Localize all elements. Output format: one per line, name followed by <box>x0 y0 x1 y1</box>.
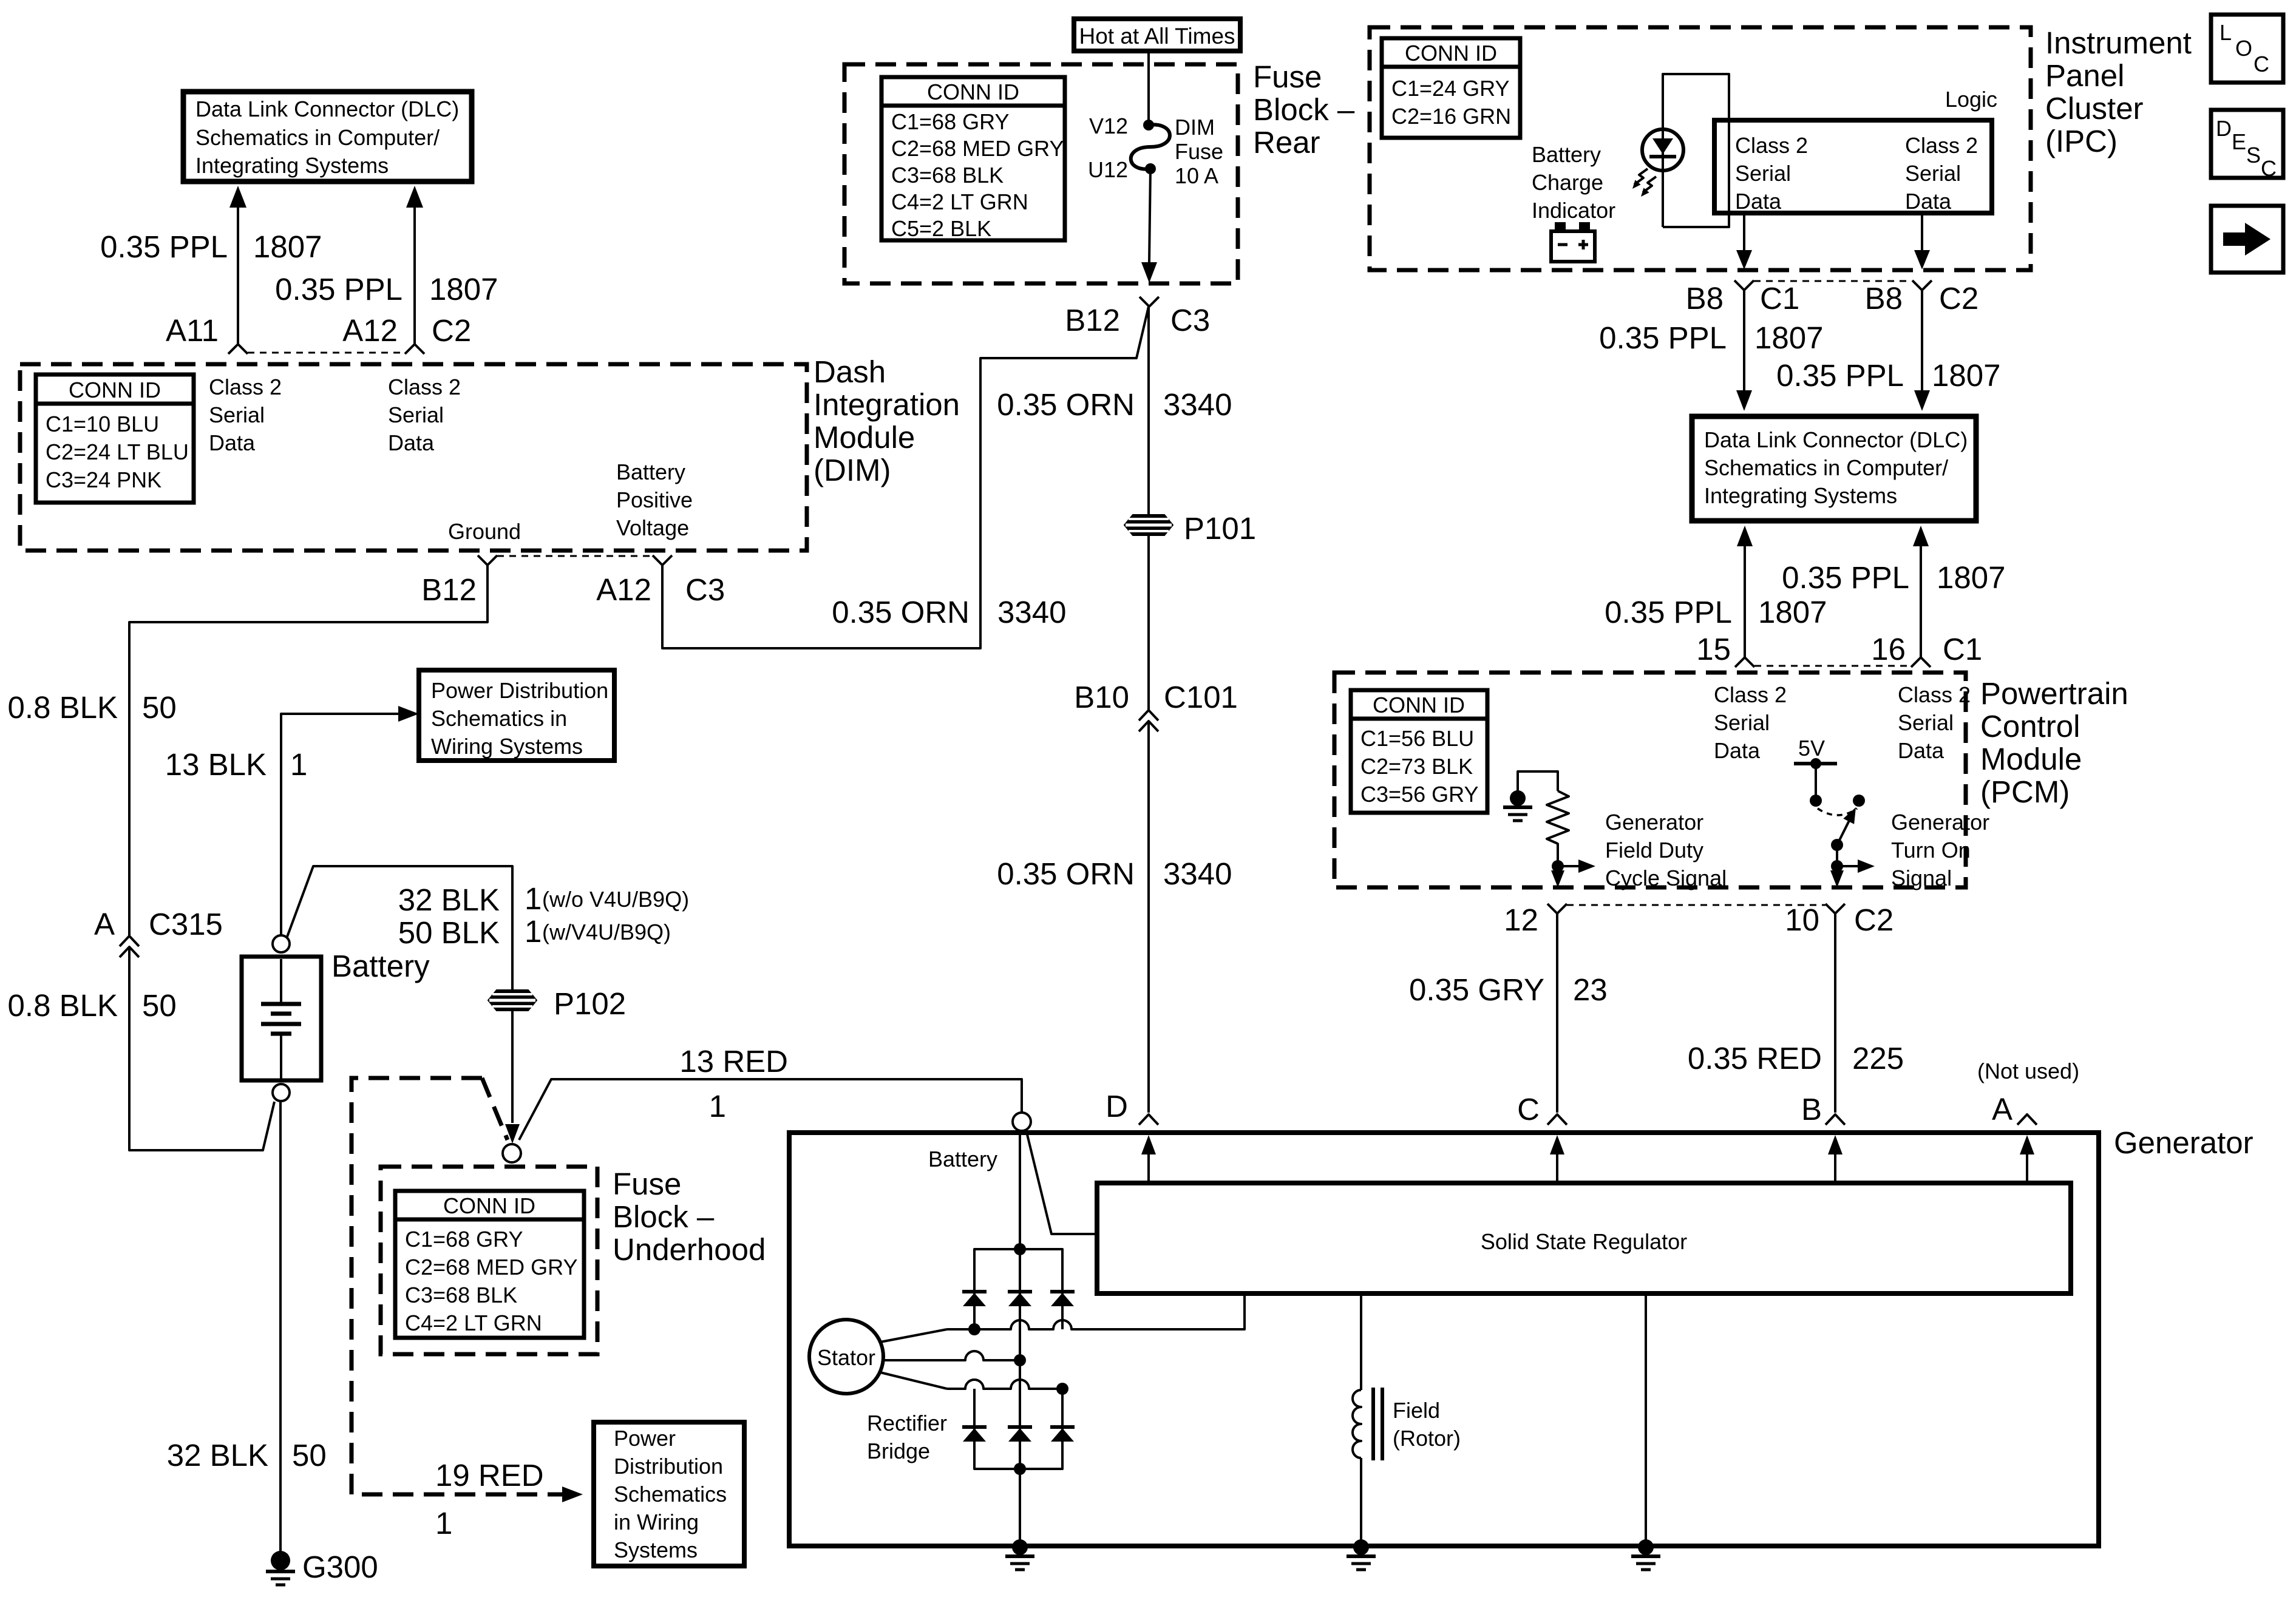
Fuse Block - Underhood dashed diagonal to terminal <box>482 1078 508 1140</box>
terminal B arrow <box>1834 1153 1836 1183</box>
DIM fuse 10A <box>1131 120 1170 174</box>
svg-text:B12: B12 <box>421 572 477 607</box>
svg-text:Integration: Integration <box>813 387 960 422</box>
connector 15 at PCM <box>1735 657 1754 667</box>
svg-text:(Not used): (Not used) <box>1977 1059 2079 1083</box>
svg-text:Serial: Serial <box>1714 710 1770 735</box>
svg-text:C2: C2 <box>432 313 471 348</box>
connector A / C315 inline <box>120 936 139 946</box>
DIM CONN ID table <box>36 375 194 503</box>
svg-text:D: D <box>1106 1089 1128 1124</box>
svg-text:225: 225 <box>1852 1041 1904 1076</box>
svg-text:0.35 GRY: 0.35 GRY <box>1409 972 1544 1007</box>
wire branch to DIM battery positive <box>662 307 1149 648</box>
svg-text:32 BLK: 32 BLK <box>398 883 500 917</box>
svg-text:Cycle Signal: Cycle Signal <box>1605 866 1727 890</box>
svg-text:E: E <box>2232 129 2246 154</box>
svg-text:50 BLK: 50 BLK <box>398 915 500 950</box>
connector link dashed line <box>497 555 652 557</box>
svg-text:C2=68 MED GRY: C2=68 MED GRY <box>891 136 1064 161</box>
wire arm to junction <box>1836 845 1838 880</box>
Underhood CONN ID table <box>395 1191 584 1338</box>
wire fuse output down <box>1149 169 1150 262</box>
svg-text:C2=73 BLK: C2=73 BLK <box>1360 754 1473 779</box>
svg-text:Integrating Systems: Integrating Systems <box>1704 483 1897 508</box>
Fuse Block - Underhood dashed boundary line <box>352 1078 562 1494</box>
phase A line with hops <box>947 1296 1245 1329</box>
connector A11 at DIM <box>228 344 248 354</box>
terminal C arrow <box>1556 1153 1558 1183</box>
connector link dashed line <box>248 352 405 354</box>
diode D2 (top middle) <box>1008 1292 1032 1306</box>
svg-text:Generator: Generator <box>2114 1125 2254 1160</box>
terminal A arrow <box>2026 1153 2028 1183</box>
svg-text:Rectifier: Rectifier <box>867 1411 947 1436</box>
wire battery positive to P102 <box>287 866 512 990</box>
wire hot feed to fuse <box>1147 51 1150 125</box>
regulator ground leg <box>1645 1296 1647 1547</box>
Fuse Block - Underhood dashed box <box>381 1167 597 1354</box>
wire IPC C2 to DLC <box>1921 290 1923 392</box>
svg-text:1: 1 <box>290 747 307 782</box>
svg-text:C2=68 MED GRY: C2=68 MED GRY <box>405 1255 577 1280</box>
svg-text:C2: C2 <box>1939 281 1978 316</box>
svg-text:Indicator: Indicator <box>1532 198 1615 223</box>
battery box <box>242 957 321 1080</box>
svg-text:0.8 BLK: 0.8 BLK <box>8 988 118 1023</box>
svg-text:Voltage: Voltage <box>616 515 689 540</box>
wire PCM 16 to DLC <box>1920 545 1922 657</box>
svg-text:DIM: DIM <box>1175 115 1215 140</box>
wire logic to IPC edge (C2) <box>1921 215 1923 250</box>
svg-text:S: S <box>2246 143 2261 168</box>
terminal C chevron <box>1547 1114 1567 1125</box>
switch contact dots <box>1810 795 1822 807</box>
wire resistor to junction <box>1557 843 1559 880</box>
svg-text:Turn On: Turn On <box>1891 838 1971 863</box>
svg-text:12: 12 <box>1504 903 1538 937</box>
svg-text:C2=16 GRN: C2=16 GRN <box>1391 104 1511 129</box>
svg-text:Data: Data <box>388 430 435 455</box>
svg-text:1: 1 <box>709 1089 726 1124</box>
svg-text:Schematics in Computer/: Schematics in Computer/ <box>195 125 440 150</box>
connector B12 at DIM bottom <box>478 555 497 565</box>
svg-text:Wiring Systems: Wiring Systems <box>431 734 583 759</box>
svg-text:B10: B10 <box>1074 680 1129 714</box>
svg-text:3340: 3340 <box>1163 387 1232 422</box>
PCM internal ground <box>1503 790 1532 821</box>
svg-text:Systems: Systems <box>614 1537 698 1562</box>
wire P101 down <box>1147 535 1150 710</box>
svg-text:Schematics: Schematics <box>614 1482 727 1507</box>
svg-text:Serial: Serial <box>1735 161 1791 186</box>
junction dot <box>1552 860 1564 872</box>
svg-text:Ground: Ground <box>448 519 521 544</box>
Powertrain Control Module (PCM) dashed box <box>1334 673 1966 887</box>
svg-text:C4=2 LT GRN: C4=2 LT GRN <box>891 189 1028 214</box>
svg-text:C1=56 BLU: C1=56 BLU <box>1360 726 1474 751</box>
svg-text:CONN ID: CONN ID <box>1405 41 1497 66</box>
svg-text:B8: B8 <box>1865 281 1903 316</box>
wire PCM 15 to DLC <box>1744 545 1746 657</box>
svg-text:1807: 1807 <box>429 272 498 307</box>
svg-text:13 RED: 13 RED <box>679 1044 788 1079</box>
svg-text:C: C <box>2261 156 2277 181</box>
Data Link Connector (DLC) reference box (right) <box>1692 416 1976 521</box>
svg-text:CONN ID: CONN ID <box>443 1193 535 1218</box>
svg-text:L: L <box>2220 20 2232 45</box>
svg-text:Solid State Regulator: Solid State Regulator <box>1481 1229 1687 1254</box>
wire C101 to generator D terminal <box>1147 721 1150 1113</box>
svg-text:P102: P102 <box>554 986 626 1021</box>
bridge output ground <box>1005 1539 1034 1570</box>
svg-text:0.35 PPL: 0.35 PPL <box>1776 358 1904 393</box>
svg-text:0.35 RED: 0.35 RED <box>1688 1041 1822 1076</box>
svg-text:Class 2: Class 2 <box>388 375 461 399</box>
svg-text:Battery: Battery <box>616 459 685 484</box>
svg-text:Block –: Block – <box>613 1199 715 1234</box>
svg-text:in Wiring: in Wiring <box>614 1510 699 1534</box>
svg-text:13 BLK: 13 BLK <box>165 747 267 782</box>
svg-text:Hot at All Times: Hot at All Times <box>1079 24 1235 49</box>
svg-text:Data: Data <box>1714 738 1761 763</box>
switch arm (generator turn on) <box>1837 815 1852 845</box>
svg-text:C2: C2 <box>1854 903 1894 937</box>
svg-text:A: A <box>94 907 115 941</box>
wire battery terminal into generator <box>1026 1130 1095 1234</box>
svg-text:Field: Field <box>1393 1398 1440 1423</box>
wire B12 ground run <box>129 565 487 936</box>
svg-text:50: 50 <box>142 690 177 725</box>
wire 0.35 RED to generator B <box>1834 914 1836 1113</box>
5V supply <box>1794 758 1837 795</box>
svg-text:Serial: Serial <box>209 402 265 427</box>
connector P102 inline <box>488 990 537 1011</box>
signal arrow right <box>1558 865 1578 867</box>
connector 12 at PCM bottom <box>1547 904 1567 914</box>
svg-text:Fuse: Fuse <box>613 1167 681 1201</box>
svg-text:Class 2: Class 2 <box>1905 133 1978 158</box>
svg-text:0.35 ORN: 0.35 ORN <box>832 595 970 629</box>
svg-text:Integrating Systems: Integrating Systems <box>195 153 389 178</box>
svg-text:(Rotor): (Rotor) <box>1393 1426 1461 1451</box>
battery charge indicator LED <box>1642 129 1683 171</box>
switch dashed travel arc <box>1818 808 1857 815</box>
rotor core bars <box>1371 1388 1375 1460</box>
svg-text:C3=24 PNK: C3=24 PNK <box>46 467 161 492</box>
svg-text:Battery: Battery <box>1532 142 1601 167</box>
svg-text:0.35 ORN: 0.35 ORN <box>997 387 1135 422</box>
battery cell symbol <box>261 959 301 1079</box>
bridge bottom rail <box>974 1389 1062 1469</box>
svg-text:Charge: Charge <box>1532 170 1603 195</box>
svg-text:C3: C3 <box>685 572 725 607</box>
svg-text:C5=2 BLK: C5=2 BLK <box>891 216 991 241</box>
svg-text:A12: A12 <box>596 572 651 607</box>
resistor (field duty cycle driver) <box>1547 791 1569 844</box>
svg-text:Fuse: Fuse <box>1175 139 1223 164</box>
svg-text:Power: Power <box>614 1426 676 1451</box>
svg-text:1807: 1807 <box>1932 358 2000 393</box>
svg-text:Serial: Serial <box>1898 710 1954 735</box>
wire A12/C2 to DLC <box>413 200 416 344</box>
svg-text:(IPC): (IPC) <box>2045 124 2118 158</box>
svg-text:0.35 ORN: 0.35 ORN <box>997 856 1135 891</box>
svg-text:CONN ID: CONN ID <box>927 80 1019 104</box>
terminal B chevron <box>1826 1114 1845 1125</box>
wire 13 RED stud to generator battery terminal <box>519 1079 1022 1140</box>
svg-text:(PCM): (PCM) <box>1980 775 2070 809</box>
svg-text:(w/o V4U/B9Q): (w/o V4U/B9Q) <box>542 887 689 912</box>
svg-text:C1: C1 <box>1943 632 1982 666</box>
svg-text:Field Duty: Field Duty <box>1605 838 1703 863</box>
terminal A chevron (not used) <box>2017 1114 2037 1125</box>
svg-text:Stator: Stator <box>817 1345 875 1370</box>
svg-text:Data: Data <box>209 430 256 455</box>
svg-text:5V: 5V <box>1798 736 1825 761</box>
svg-text:0.35 PPL: 0.35 PPL <box>275 272 402 307</box>
svg-text:C1: C1 <box>1760 281 1799 316</box>
svg-text:P101: P101 <box>1184 511 1256 546</box>
Solid State Regulator box <box>1097 1183 2071 1293</box>
connector B8/C2 at IPC <box>1912 280 1932 290</box>
svg-text:Powertrain: Powertrain <box>1980 676 2128 711</box>
battery icon <box>1551 222 1595 262</box>
svg-text:1: 1 <box>525 881 542 916</box>
svg-text:Data Link Connector (DLC): Data Link Connector (DLC) <box>195 97 459 121</box>
svg-text:1807: 1807 <box>1937 560 2005 595</box>
svg-text:Signal: Signal <box>1891 866 1952 890</box>
Power Distribution reference box (upper) <box>419 670 614 761</box>
PCM CONN ID table <box>1351 690 1487 813</box>
svg-text:Cluster: Cluster <box>2045 91 2144 126</box>
wire 0.35 GRY to generator C <box>1556 914 1558 1113</box>
svg-text:C4=2 LT GRN: C4=2 LT GRN <box>405 1310 542 1335</box>
svg-text:0.35 PPL: 0.35 PPL <box>1599 320 1727 355</box>
svg-text:Block –: Block – <box>1253 92 1355 127</box>
svg-text:Module: Module <box>1980 742 2082 776</box>
connector A12/C2 at DIM <box>405 344 424 354</box>
svg-text:A12: A12 <box>342 313 398 348</box>
svg-text:Underhood: Underhood <box>613 1232 766 1267</box>
Hot at All Times box <box>1074 19 1240 51</box>
diode D5 (bottom middle) <box>1008 1427 1032 1442</box>
next-page arrow box <box>2211 206 2283 273</box>
Fuse Block - Rear dashed box <box>844 64 1238 283</box>
svg-text:D: D <box>2216 116 2232 141</box>
phase B line with hop <box>947 1351 1020 1360</box>
DESC nav box <box>2211 110 2283 181</box>
svg-text:15: 15 <box>1696 632 1731 666</box>
svg-text:Positive: Positive <box>616 487 693 512</box>
svg-text:Rear: Rear <box>1253 125 1320 160</box>
stator <box>809 1320 883 1394</box>
svg-text:V12: V12 <box>1089 114 1128 138</box>
svg-text:Generator: Generator <box>1891 810 1989 835</box>
svg-text:32 BLK: 32 BLK <box>167 1438 268 1473</box>
IPC CONN ID table <box>1382 38 1520 138</box>
svg-text:C3=56 GRY: C3=56 GRY <box>1360 782 1478 807</box>
connector link dashed line <box>1754 280 1912 282</box>
svg-text:Generator: Generator <box>1605 810 1703 835</box>
svg-text:Data: Data <box>1905 189 1952 214</box>
wire C315 to battery negative <box>129 947 274 1150</box>
field coil to ground <box>1360 1458 1362 1547</box>
battery negative terminal circle <box>273 1084 290 1101</box>
svg-text:B8: B8 <box>1686 281 1724 316</box>
Power Distribution reference box (lower) <box>594 1422 744 1566</box>
svg-text:Battery: Battery <box>331 949 430 983</box>
IPC logic box <box>1714 120 1992 213</box>
svg-text:0.35 PPL: 0.35 PPL <box>100 229 228 264</box>
svg-text:10: 10 <box>1785 903 1819 937</box>
svg-text:Data: Data <box>1735 189 1782 214</box>
Instrument Panel Cluster (IPC) dashed box <box>1370 27 2031 270</box>
svg-text:Dash: Dash <box>813 354 886 389</box>
connector 10/C2 at PCM bottom <box>1826 904 1845 914</box>
svg-text:1807: 1807 <box>1754 320 1823 355</box>
svg-text:(DIM): (DIM) <box>813 453 891 487</box>
svg-text:Class 2: Class 2 <box>1898 682 1971 707</box>
svg-text:(w/V4U/B9Q): (w/V4U/B9Q) <box>542 920 671 944</box>
connector B10 / C101 inline <box>1139 710 1158 720</box>
svg-text:0.35 PPL: 0.35 PPL <box>1782 560 1909 595</box>
svg-text:Class 2: Class 2 <box>1714 682 1787 707</box>
phase C line with hops <box>947 1380 1062 1389</box>
svg-text:C315: C315 <box>149 907 223 941</box>
svg-text:10 A: 10 A <box>1175 163 1218 188</box>
bridge top rail <box>974 1249 1062 1329</box>
svg-text:C1=10 BLU: C1=10 BLU <box>46 412 159 436</box>
svg-text:C1=24 GRY: C1=24 GRY <box>1391 76 1509 101</box>
connector B12/C3 at fuse block rear <box>1140 297 1159 307</box>
svg-text:C1=68 GRY: C1=68 GRY <box>891 109 1009 134</box>
svg-text:0.8 BLK: 0.8 BLK <box>8 690 118 725</box>
svg-text:A11: A11 <box>166 313 219 348</box>
svg-text:U12: U12 <box>1088 157 1128 182</box>
svg-text:1807: 1807 <box>1758 595 1827 629</box>
svg-text:Schematics in: Schematics in <box>431 706 567 731</box>
battery positive terminal circle <box>273 935 290 952</box>
svg-text:Control: Control <box>1980 709 2080 744</box>
Data Link Connector (DLC) reference box (top left) <box>183 92 472 181</box>
wire logic to IPC edge (C1) <box>1743 215 1745 250</box>
svg-text:50: 50 <box>292 1438 327 1473</box>
svg-text:C3: C3 <box>1170 303 1210 337</box>
wire battery negative to G300 <box>279 1101 282 1552</box>
svg-text:C2=24 LT BLU: C2=24 LT BLU <box>46 439 189 464</box>
field (rotor) wire <box>1360 1296 1362 1390</box>
fuse block underhood stud terminal <box>503 1144 521 1162</box>
svg-text:Instrument: Instrument <box>2045 25 2192 60</box>
svg-text:B: B <box>1801 1092 1822 1127</box>
ground G300 <box>266 1551 295 1585</box>
diode D3 (top right) <box>1050 1292 1075 1306</box>
svg-text:23: 23 <box>1573 972 1608 1007</box>
svg-text:1: 1 <box>435 1506 452 1541</box>
svg-text:Power Distribution: Power Distribution <box>431 678 608 703</box>
svg-text:Data: Data <box>1898 738 1944 763</box>
Rear CONN ID table <box>881 77 1065 240</box>
svg-text:C3=68 BLK: C3=68 BLK <box>891 163 1004 188</box>
svg-text:Schematics in Computer/: Schematics in Computer/ <box>1704 455 1948 480</box>
svg-text:3340: 3340 <box>997 595 1066 629</box>
svg-text:1: 1 <box>525 914 542 949</box>
svg-text:Serial: Serial <box>388 402 444 427</box>
svg-text:C1=68 GRY: C1=68 GRY <box>405 1227 523 1252</box>
diode D6 (bottom right) <box>1050 1427 1075 1442</box>
Dash Integration Module (DIM) dashed box <box>20 364 807 551</box>
terminal D arrow <box>1147 1153 1150 1183</box>
wire IPC C1 to DLC <box>1743 290 1745 392</box>
field (rotor) coil <box>1353 1390 1361 1458</box>
svg-text:Data Link Connector (DLC): Data Link Connector (DLC) <box>1704 427 1968 452</box>
svg-text:C: C <box>1517 1092 1540 1127</box>
svg-text:C3=68 BLK: C3=68 BLK <box>405 1283 517 1307</box>
wire A11 to DLC <box>237 200 239 344</box>
svg-text:Battery: Battery <box>928 1147 997 1171</box>
svg-text:CONN ID: CONN ID <box>69 378 161 402</box>
wire battery terminal down to bridge <box>1019 1130 1021 1547</box>
svg-text:O: O <box>2235 36 2252 61</box>
svg-text:Logic: Logic <box>1945 87 1997 112</box>
connector B8/C1 at IPC <box>1734 280 1754 290</box>
svg-text:3340: 3340 <box>1163 856 1232 891</box>
wire 13 BLK to power distribution <box>281 714 403 935</box>
svg-text:0.35 PPL: 0.35 PPL <box>1605 595 1732 629</box>
wire ground to resistor <box>1518 771 1558 797</box>
wire 0.35 ORN trunk (to generator D) <box>1147 307 1150 514</box>
19 RED arrowhead <box>562 1486 583 1502</box>
svg-text:CONN ID: CONN ID <box>1373 693 1465 717</box>
terminal D chevron <box>1139 1114 1158 1125</box>
svg-text:G300: G300 <box>302 1550 378 1584</box>
svg-text:Fuse: Fuse <box>1253 59 1322 94</box>
wire P102 to fuse block underhood stud <box>511 1011 514 1123</box>
svg-text:19 RED: 19 RED <box>435 1458 544 1493</box>
svg-text:50: 50 <box>142 988 177 1023</box>
diode D1 (top left) <box>962 1292 987 1306</box>
svg-text:B12: B12 <box>1065 303 1120 337</box>
connector 16/C1 at PCM <box>1911 657 1931 667</box>
svg-text:A: A <box>1992 1092 2012 1127</box>
Generator box <box>789 1133 2099 1546</box>
LED light rays <box>1629 169 1656 199</box>
svg-text:Bridge: Bridge <box>867 1439 930 1463</box>
connector A12/C3 at DIM bottom <box>653 555 672 565</box>
connector P101 inline <box>1124 515 1173 535</box>
svg-text:C: C <box>2254 52 2269 76</box>
svg-text:16: 16 <box>1871 632 1906 666</box>
LOC nav box <box>2211 15 2283 83</box>
connector link dashed line <box>1754 665 1911 667</box>
svg-text:Panel: Panel <box>2045 58 2124 93</box>
generator battery terminal circle <box>1013 1113 1031 1131</box>
svg-text:Distribution: Distribution <box>614 1454 723 1479</box>
svg-text:Serial: Serial <box>1905 161 1961 186</box>
svg-text:Class 2: Class 2 <box>209 375 282 399</box>
svg-text:Class 2: Class 2 <box>1735 133 1808 158</box>
connector link dashed line <box>1567 904 1826 906</box>
diode D4 (bottom left) <box>962 1427 987 1442</box>
svg-text:1807: 1807 <box>253 229 322 264</box>
stator phase leads <box>880 1329 947 1342</box>
svg-text:C101: C101 <box>1164 680 1238 714</box>
battery charge indicator lamp loop <box>1663 74 1729 227</box>
svg-text:Module: Module <box>813 420 915 455</box>
